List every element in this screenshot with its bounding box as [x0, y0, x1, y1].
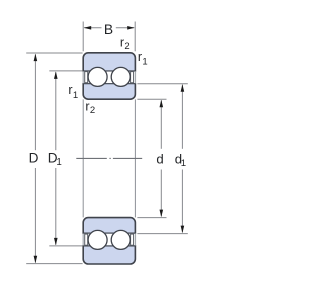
- D extension top: [26, 52, 82, 54]
- D extension bottom: [26, 263, 82, 265]
- arrow D bottom: [34, 256, 38, 264]
- svg-text:D: D: [29, 151, 39, 166]
- lower bearing section (mirrored): [82, 218, 136, 264]
- center line: [76, 157, 142, 159]
- arrow d bottom: [160, 210, 164, 218]
- arrow B right: [127, 26, 135, 30]
- arrow D1 top: [54, 71, 58, 79]
- svg-text:2: 2: [124, 41, 129, 52]
- bore line right: [134, 99, 136, 217]
- arrow B left: [84, 26, 92, 30]
- D1 extension bottom: [49, 245, 82, 247]
- arrow d1 bottom: [181, 226, 185, 234]
- arrow D1 bottom: [54, 238, 58, 246]
- svg-text:B: B: [104, 22, 113, 37]
- dimension d line: [137, 99, 166, 217]
- arrow d1 top: [181, 84, 185, 92]
- d1 extension bottom: [137, 233, 187, 235]
- dimension d1 line: [137, 84, 187, 234]
- svg-text:1: 1: [181, 158, 186, 169]
- dimension B line: [84, 27, 101, 29]
- dimension D line: [26, 53, 82, 264]
- D1 extension top: [49, 70, 82, 72]
- dimension D1 line: [49, 71, 82, 246]
- svg-text:d: d: [156, 151, 163, 166]
- dimension B extension lines: [83, 22, 135, 52]
- d extension top: [137, 98, 166, 100]
- upper bearing section: [82, 53, 136, 99]
- d extension bottom: [137, 217, 166, 219]
- arrow d top: [160, 100, 164, 108]
- svg-text:1: 1: [73, 90, 78, 101]
- svg-text:1: 1: [56, 157, 61, 168]
- bore line left: [82, 99, 84, 217]
- arrow D top: [34, 54, 38, 62]
- d1 extension top: [137, 83, 187, 85]
- svg-text:1: 1: [142, 56, 147, 67]
- svg-text:2: 2: [90, 105, 95, 116]
